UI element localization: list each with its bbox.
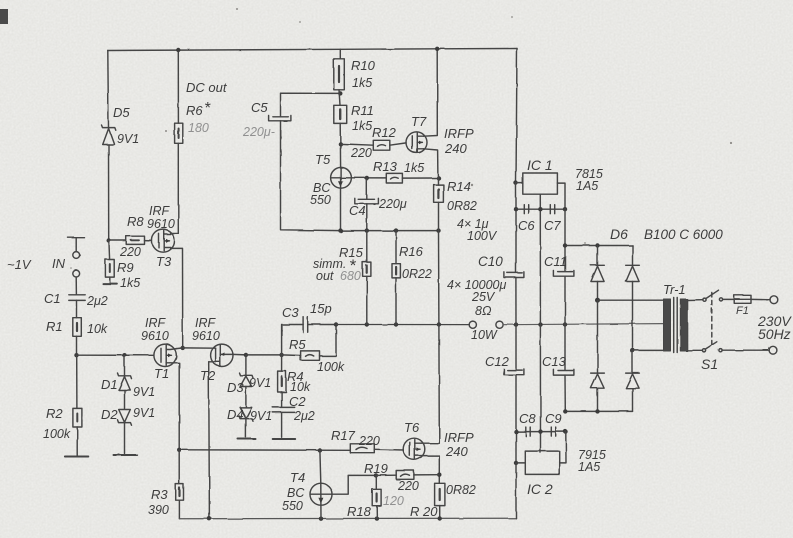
- op-amp IC2 regulator 7915: [525, 451, 559, 474]
- wire R19 to T6 source: [414, 474, 439, 476]
- node C3 R5 output: [334, 322, 338, 326]
- capacitor C3: [303, 317, 308, 333]
- ground D2: [114, 454, 138, 456]
- svg-text:25V: 25V: [471, 290, 496, 304]
- svg-text:R1: R1: [46, 319, 63, 334]
- wire T6 drain jog: [421, 442, 439, 444]
- node T4 emitter bottom: [319, 517, 323, 521]
- svg-text:C9: C9: [545, 411, 562, 426]
- wire R16 top: [395, 231, 397, 264]
- ground R9: [103, 283, 117, 285]
- node speaker left terminal: [469, 321, 476, 328]
- transistor T4 BC550: [310, 483, 332, 505]
- resistor R8: [126, 236, 144, 244]
- wire R13 to T7 source rail: [402, 177, 438, 179]
- wire switch to terminal bottom: [722, 349, 769, 351]
- wire D6c to bottom rail: [597, 388, 599, 411]
- wire input to C1: [75, 277, 77, 295]
- wire T3 drain to R6: [171, 143, 179, 233]
- svg-text:F1: F1: [736, 305, 749, 317]
- wire T2 source down: [208, 362, 211, 519]
- resistor R11: [334, 105, 347, 123]
- diode D1 zener: [118, 373, 132, 390]
- wire bridge right vertical upper: [632, 246, 634, 266]
- svg-text:R18: R18: [347, 504, 372, 519]
- capacitor C11: [553, 271, 574, 277]
- wire R1 to node: [76, 336, 78, 355]
- wire T4 emitter down: [320, 505, 322, 519]
- wire IC1 right pin: [557, 183, 565, 209]
- diode D3 zener: [239, 373, 253, 387]
- node mains terminal bottom: [769, 346, 777, 354]
- capacitor C9: [551, 427, 555, 436]
- node R16 top: [394, 228, 398, 232]
- svg-text:0R22: 0R22: [402, 267, 432, 281]
- node C4 R13: [365, 176, 369, 180]
- wire T7 source to R14: [424, 149, 439, 185]
- svg-text:10k: 10k: [290, 380, 311, 394]
- node IC2 input left: [514, 461, 518, 465]
- transistor T2 IRF9610: [209, 344, 233, 366]
- svg-text:BC: BC: [287, 486, 305, 500]
- svg-text:9610: 9610: [147, 217, 175, 231]
- node bridge left bottom: [595, 409, 599, 413]
- ground R2: [65, 456, 88, 458]
- svg-text:D3: D3: [227, 380, 244, 395]
- wire C13 to -unreg rail: [564, 375, 566, 411]
- svg-text:C2: C2: [289, 394, 306, 409]
- wire R16 bottom: [395, 278, 397, 325]
- diode D6a: [591, 265, 605, 281]
- wire node down to R2: [76, 355, 78, 408]
- svg-text:9V1: 9V1: [133, 406, 155, 420]
- resistor R17: [350, 444, 374, 453]
- node R20 bottom: [438, 516, 442, 520]
- wire bridge right vertical lower: [632, 350, 634, 373]
- node input signal: [73, 270, 80, 277]
- transistor T6 IRFP240: [403, 438, 425, 460]
- svg-text:220: 220: [119, 245, 141, 259]
- wire C1 to R1: [76, 300, 78, 317]
- wire IC2 left pin: [516, 462, 525, 464]
- svg-text:100V: 100V: [467, 229, 498, 243]
- wire D6a to secondary top: [597, 282, 599, 301]
- wire T7 drain to +rail: [424, 49, 438, 136]
- wire C8 C9 rail: [516, 431, 566, 433]
- wire T5 base to R13: [351, 177, 386, 179]
- node rail R3: [177, 448, 181, 452]
- wire emitter rail: [341, 230, 439, 232]
- op-amp IC1 regulator 7815: [523, 173, 558, 194]
- svg-text:R9: R9: [117, 260, 134, 275]
- wire node to T2 gate: [183, 347, 216, 349]
- node D1 branch: [122, 353, 126, 357]
- wire R4 to C2: [281, 392, 283, 407]
- svg-text:100k: 100k: [43, 427, 71, 441]
- wire R20 bottom: [439, 506, 441, 519]
- wire node to R19: [376, 474, 396, 476]
- node C4 bottom: [365, 228, 369, 232]
- svg-text:10W: 10W: [471, 328, 498, 342]
- wire T1 drain junction: [177, 347, 183, 350]
- node R18 R19: [374, 473, 378, 477]
- diode D6d: [626, 373, 640, 388]
- diode D5 zener: [102, 125, 116, 145]
- wire D6 top rail: [565, 245, 633, 247]
- wire bridge left vertical upper: [597, 246, 599, 266]
- svg-text:220: 220: [397, 479, 419, 493]
- svg-text:C5: C5: [251, 100, 268, 115]
- node R12 tap: [338, 142, 342, 146]
- resistor R16: [392, 264, 400, 278]
- svg-text:R2: R2: [46, 406, 63, 421]
- svg-text:C1: C1: [44, 291, 61, 306]
- svg-text:R8: R8: [127, 214, 144, 229]
- svg-text:out: out: [316, 269, 334, 283]
- wire R17 to T6 gate: [374, 448, 403, 451]
- node T6 drain rail: [437, 322, 441, 326]
- resistor R20: [435, 483, 445, 505]
- svg-text:B100 C 6000: B100 C 6000: [644, 227, 723, 242]
- svg-text:180: 180: [188, 121, 209, 135]
- svg-text:R17: R17: [331, 428, 356, 443]
- svg-text:R5: R5: [289, 337, 306, 352]
- capacitor C4: [355, 198, 379, 203]
- svg-text:120: 120: [383, 494, 404, 508]
- node bridge left top: [595, 243, 599, 247]
- svg-text:R16: R16: [399, 244, 424, 259]
- wire rail to C13: [564, 325, 566, 371]
- ground C2: [273, 438, 296, 440]
- svg-text:9610: 9610: [192, 329, 220, 343]
- svg-text:IC 1: IC 1: [527, 157, 553, 173]
- wire bridge left vertical lower: [597, 300, 599, 373]
- svg-text:240: 240: [444, 141, 467, 156]
- svg-text:C7: C7: [544, 218, 561, 233]
- diode D2 zener: [118, 410, 132, 426]
- svg-text:9610: 9610: [141, 329, 169, 343]
- switch S1 upper pole: [703, 290, 723, 301]
- svg-text:R19: R19: [364, 461, 388, 476]
- svg-text:0R82: 0R82: [447, 199, 477, 213]
- wire +rail to R10: [339, 49, 341, 59]
- svg-text:1A5: 1A5: [576, 179, 598, 193]
- node speaker right terminal: [496, 321, 503, 328]
- wire node to R18: [375, 475, 377, 489]
- svg-text:T6: T6: [404, 420, 420, 435]
- node C6 left: [514, 207, 518, 211]
- wire node down to R4: [281, 355, 283, 371]
- node secondary top: [595, 298, 600, 303]
- svg-text:T2: T2: [200, 368, 216, 383]
- wire node to D3: [245, 355, 247, 375]
- wire C2 to ground: [281, 412, 283, 437]
- node R6 top: [176, 48, 180, 52]
- svg-text:C3: C3: [282, 305, 299, 320]
- svg-text:1k5: 1k5: [352, 76, 372, 90]
- switch S1 lower pole: [702, 342, 722, 352]
- wire center ground rail: [503, 324, 663, 325]
- diode D4 zener: [239, 407, 253, 421]
- svg-text:IRFP: IRFP: [444, 430, 474, 445]
- node R13 R14: [436, 176, 440, 180]
- svg-text:R13: R13: [373, 159, 398, 174]
- node C7 right: [563, 207, 567, 211]
- wire +reg vertical: [515, 183, 517, 273]
- wire R9 to ground: [109, 277, 111, 282]
- wire R6 to +rail: [177, 50, 179, 123]
- wire IC1 left pin: [516, 182, 523, 184]
- node R14 bottom: [436, 228, 440, 232]
- wire R5 to C3 node: [320, 325, 337, 356]
- wire R3 to bottom rail: [178, 500, 180, 519]
- svg-text:R6: R6: [186, 103, 203, 118]
- node R10 R11 C5: [338, 91, 342, 95]
- node C11 top rail: [563, 243, 567, 247]
- wire node to R9: [108, 241, 111, 260]
- node C8 left: [514, 429, 518, 433]
- wire T6 source down: [421, 456, 439, 484]
- svg-text:IN: IN: [52, 256, 66, 271]
- svg-text:S1: S1: [701, 356, 718, 372]
- wire node to T1 gate: [77, 354, 154, 356]
- svg-text:T7: T7: [411, 114, 427, 129]
- svg-text:D6: D6: [610, 226, 628, 242]
- node secondary bottom: [630, 348, 635, 353]
- svg-text:9V1: 9V1: [250, 409, 272, 423]
- svg-text:T4: T4: [290, 470, 305, 485]
- wire secondary top to transformer: [598, 299, 664, 301]
- resistor R19: [396, 471, 414, 480]
- wire R11 to T5: [339, 123, 341, 167]
- scan specks: [70, 8, 732, 269]
- wire primary bottom to switch: [687, 349, 702, 351]
- wire D5 branch top: [107, 51, 110, 128]
- diode D6b: [626, 265, 640, 281]
- svg-text:D1: D1: [101, 377, 118, 392]
- fuse F1: [734, 295, 751, 303]
- svg-text:C4: C4: [349, 203, 366, 218]
- svg-text:IRF: IRF: [145, 316, 167, 330]
- capacitor C6: [524, 205, 528, 214]
- svg-text:*: *: [204, 100, 211, 117]
- resistor R5: [301, 351, 320, 360]
- resistor R12: [373, 140, 390, 150]
- capacitor C12: [504, 369, 524, 375]
- wire D6d to bottom rail: [632, 388, 634, 411]
- resistor R9: [105, 260, 114, 278]
- node C6 C7 mid: [538, 207, 542, 211]
- svg-text:8Ω: 8Ω: [475, 304, 492, 318]
- diode D6c: [591, 373, 605, 388]
- wire D4 to ground: [245, 419, 247, 438]
- wire D6b to node: [632, 282, 634, 351]
- svg-text:15p: 15p: [310, 301, 332, 316]
- svg-text:C10: C10: [478, 254, 503, 269]
- wire C11 to rail: [564, 276, 566, 324]
- transistor T7 IRFP240: [406, 132, 427, 153]
- svg-text:1k5: 1k5: [352, 119, 372, 133]
- capacitor C7: [550, 205, 554, 214]
- node ground rail: [538, 322, 542, 326]
- resistor R1: [73, 318, 82, 337]
- svg-text:2μ2: 2μ2: [293, 409, 315, 423]
- svg-text:T5: T5: [315, 152, 331, 167]
- wire T3 source down: [171, 248, 183, 348]
- svg-text:240: 240: [445, 444, 468, 459]
- wire R2 to ground: [76, 427, 78, 455]
- wire node to R5: [282, 354, 301, 357]
- node gate T1: [74, 353, 78, 357]
- svg-text:R 20: R 20: [410, 504, 438, 519]
- resistor R15: [363, 262, 371, 276]
- svg-text:9V1: 9V1: [117, 132, 139, 146]
- svg-text:1A5: 1A5: [578, 460, 600, 474]
- node C13 bottom rail: [563, 409, 567, 413]
- svg-text:T3: T3: [156, 254, 172, 269]
- resistor R18: [372, 489, 381, 505]
- wire secondary bottom to transformer: [633, 349, 664, 351]
- svg-text:C11: C11: [544, 254, 567, 269]
- node R19 T6 source: [437, 473, 441, 477]
- node mains terminal top: [770, 296, 778, 304]
- node IC1 input left: [514, 181, 518, 185]
- svg-text:0R82: 0R82: [446, 483, 476, 497]
- svg-text:9V1: 9V1: [133, 385, 155, 399]
- svg-text:T1: T1: [154, 366, 169, 381]
- wire D1 to D2: [124, 390, 126, 409]
- svg-text:R12: R12: [372, 125, 397, 140]
- svg-text:C12: C12: [485, 354, 510, 369]
- wire R14 to emitter rail: [438, 202, 440, 230]
- svg-text:C6: C6: [518, 218, 535, 233]
- svg-text:2μ2: 2μ2: [86, 294, 108, 308]
- svg-text:D4: D4: [227, 407, 244, 422]
- wire R12 to T7 gate: [390, 143, 406, 145]
- svg-text:390: 390: [148, 503, 169, 517]
- wire R10 to R11: [339, 90, 340, 106]
- svg-text:IRFP: IRFP: [444, 126, 474, 141]
- wire T4 collector down: [319, 451, 322, 484]
- transistor T1 IRF9610: [154, 344, 177, 366]
- svg-text:R11: R11: [351, 103, 374, 118]
- wire C5 branch: [281, 93, 341, 116]
- resistor R10: [334, 59, 345, 90]
- node R4 C3 branch: [279, 353, 283, 357]
- node input tip: [73, 252, 80, 259]
- svg-text:10k: 10k: [87, 322, 108, 336]
- svg-text:550: 550: [310, 193, 331, 207]
- svg-text:1k5: 1k5: [120, 276, 140, 290]
- svg-text:50Hz: 50Hz: [758, 326, 791, 342]
- node C11 C13 rail: [563, 322, 567, 326]
- svg-text:100k: 100k: [317, 360, 345, 374]
- wire R15 top: [366, 231, 368, 263]
- wire -reg down to bottom rail: [515, 463, 517, 518]
- wire C10 to rail: [515, 278, 517, 325]
- svg-text:220μ-: 220μ-: [242, 125, 275, 139]
- resistor R4: [278, 371, 286, 392]
- capacitor C1: [69, 295, 85, 301]
- wire C3 to node: [308, 324, 336, 326]
- node T5 emitter rail: [338, 228, 342, 232]
- wire rail to C12: [515, 325, 517, 370]
- wire R14 rail down to T6: [438, 231, 441, 444]
- svg-text:680: 680: [340, 269, 361, 283]
- wire C5 to emitter rail: [281, 121, 341, 231]
- svg-text:C13: C13: [542, 354, 567, 369]
- wire T2 drain to node: [233, 353, 246, 356]
- wire T5 emitter down: [340, 188, 342, 231]
- svg-text:220: 220: [358, 434, 380, 448]
- wire C4 top: [366, 178, 368, 199]
- svg-text:Tr-1: Tr-1: [663, 282, 686, 297]
- capacitor C10: [504, 272, 524, 278]
- ground input-jack: [68, 238, 85, 252]
- capacitor C8: [526, 427, 530, 436]
- node R15 bottom: [365, 322, 369, 326]
- switch S1 link dashed: [711, 293, 713, 349]
- wire node up to C3: [282, 325, 304, 355]
- svg-text:220: 220: [350, 146, 372, 160]
- ground D3 D4: [238, 438, 256, 440]
- wire R15 bottom: [366, 276, 368, 324]
- svg-text:9V1: 9V1: [249, 376, 271, 390]
- wire C4 to emitter rail: [366, 204, 368, 231]
- svg-text:DC out: DC out: [186, 80, 228, 95]
- wire D6 bottom rail: [565, 410, 632, 412]
- svg-text:D5: D5: [113, 105, 130, 120]
- node R16 bottom: [394, 322, 398, 326]
- transformer core: [674, 298, 678, 353]
- node D5 R8 R9: [107, 238, 111, 242]
- wire switch to fuse: [723, 298, 735, 300]
- resistor R13: [386, 173, 402, 183]
- wire node to D1: [124, 355, 126, 375]
- wire top +rail: [108, 49, 517, 51]
- node D3 branch: [244, 353, 248, 357]
- node C10 C12 rail: [514, 322, 518, 326]
- wire R3 top: [178, 450, 180, 484]
- node T2 source bottom: [207, 517, 211, 521]
- node T7 drain top: [435, 47, 439, 51]
- wire +rail down to IC1: [516, 49, 517, 184]
- capacitor C5: [269, 116, 291, 121]
- svg-text:IRF: IRF: [195, 316, 217, 330]
- node T4 collector: [318, 448, 322, 452]
- wire R12 left: [340, 144, 373, 145]
- resistor R2: [73, 408, 82, 427]
- svg-text:1k5: 1k5: [404, 161, 424, 175]
- transistor T3 IRF9610: [152, 230, 175, 253]
- svg-text:IRF: IRF: [149, 204, 171, 218]
- svg-text:R14: R14: [447, 179, 471, 194]
- wire R8 to T3 gate: [145, 240, 153, 242]
- wire D2 to ground: [124, 423, 126, 454]
- wire D5 to node: [108, 145, 110, 241]
- capacitor C2: [273, 407, 295, 412]
- svg-text:C8: C8: [519, 411, 536, 426]
- wire D3 to D4: [245, 387, 247, 408]
- wire IC1 ground pin: [539, 194, 541, 452]
- transformer Tr-1 winding primary: [680, 299, 687, 351]
- wire T1 source down: [170, 363, 179, 450]
- wire output rail: [336, 324, 469, 326]
- wire C12 to C8 rail: [515, 375, 517, 463]
- node T1 drain T2 gate: [181, 346, 185, 350]
- svg-text:R3: R3: [151, 487, 168, 502]
- scan corner mark: [0, 9, 8, 24]
